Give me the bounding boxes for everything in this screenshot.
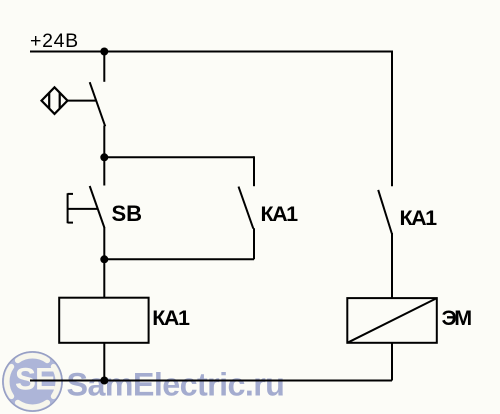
wire bottom common rail	[30, 380, 392, 382]
svg-text:ЭМ: ЭМ	[442, 306, 472, 330]
relay coil KA1	[59, 298, 148, 343]
node junction top (104,51.5)	[100, 48, 108, 56]
contact KA1 latch upper terminal wire	[253, 156, 255, 186]
sensor contact upper terminal wire	[103, 52, 105, 82]
svg-text:+24В: +24В	[30, 30, 79, 52]
contact KA1 latch blade	[239, 187, 254, 229]
node junction rung2 bottom (104,259)	[100, 255, 108, 263]
sensor contact blade	[90, 82, 106, 126]
svg-text:КА1: КА1	[400, 206, 438, 230]
wire EM to bottom rail	[391, 343, 393, 381]
svg-text:SamElectric.ru: SamElectric.ru	[67, 367, 285, 403]
svg-text:SE: SE	[15, 360, 55, 396]
electromagnet EM box	[347, 298, 437, 343]
watermark logo SE (SamElectric)	[2, 351, 63, 412]
wire top +24V rail	[30, 51, 392, 53]
node junction rung2 top (104,157)	[100, 153, 108, 161]
wire rung2 lower horizontal	[104, 258, 254, 260]
node junction bottom (104,380.5)	[100, 377, 108, 385]
proximity sensor symbol (diamond)	[42, 87, 68, 114]
contact KA1 output blade	[378, 190, 392, 234]
svg-text:SB: SB	[112, 201, 143, 226]
wire to relay coil	[103, 259, 105, 297]
sensor contact lower terminal wire	[103, 126, 105, 158]
wire rung2 upper horizontal	[104, 156, 254, 158]
wire right branch upper	[391, 51, 393, 187]
push button SB upper terminal wire	[103, 157, 105, 185]
svg-text:КА1: КА1	[261, 202, 299, 226]
contact KA1 latch lower terminal wire	[253, 228, 255, 259]
sensor actuator link wire	[68, 100, 96, 102]
contact KA1 output lower terminal wire	[391, 233, 393, 298]
wire coil to bottom rail	[103, 343, 105, 381]
svg-text:КА1: КА1	[152, 306, 190, 330]
push button SB actuator bracket	[68, 193, 98, 223]
push button SB lower terminal wire	[103, 228, 105, 260]
push button SB blade	[90, 186, 105, 228]
